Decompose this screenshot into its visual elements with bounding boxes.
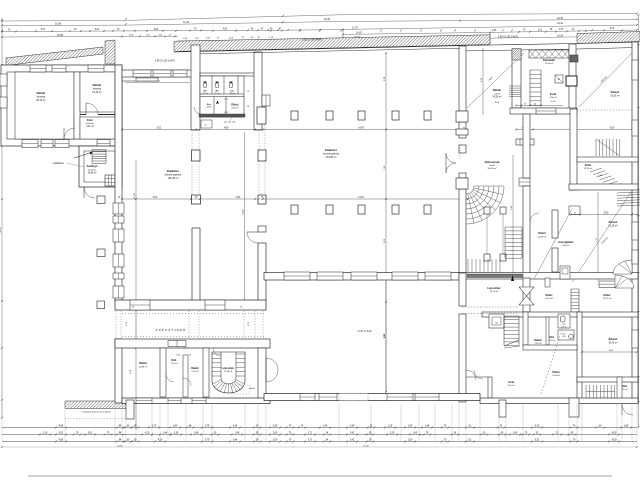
svg-text:4,20: 4,20: [145, 433, 150, 435]
svg-text:14,87: 14,87: [358, 197, 364, 199]
wall y377 bottom wing: [577, 377, 638, 382]
svg-text:34,32: 34,32: [324, 18, 331, 21]
svg-text:szódó: szódó: [489, 165, 495, 167]
svg-text:4,66: 4,66: [492, 30, 497, 32]
connector wall top: [122, 74, 160, 76]
label eladoter 334: [323, 148, 340, 159]
right wing west wall: [459, 46, 466, 273]
svg-text:14,87: 14,87: [356, 31, 363, 34]
svg-text:Közl.: Közl.: [171, 359, 177, 362]
svg-text:Raktár: Raktár: [37, 91, 47, 95]
svg-text:11,62: 11,62: [0, 227, 2, 233]
hatch band top right: [565, 32, 640, 44]
svg-text:1,46: 1,46: [235, 433, 240, 435]
dim vline x513: [511, 155, 513, 278]
bowtie door symbol: [519, 287, 534, 296]
windows wing west wall: [0, 74, 7, 108]
toilet block east wall: [254, 52, 262, 130]
label raktar 9,50: [191, 367, 199, 373]
label raktar szarito: [492, 88, 501, 104]
wall kotart west: [570, 109, 577, 190]
svg-text:17,07: 17,07: [352, 26, 359, 29]
label kiszolgaloter: [558, 241, 573, 247]
dim line 6,00 y214: [570, 213, 638, 216]
eloteto dashed: [232, 385, 250, 394]
wall y345 lower mid: [523, 345, 577, 350]
passage dotted horizontals: [122, 313, 264, 315]
windows courtyard bottom wall: [300, 394, 439, 401]
hatch band top middle legudvar: [157, 35, 503, 52]
dimension line top 4 right detailed: [342, 28, 638, 39]
svg-text:3,46: 3,46: [233, 426, 238, 428]
svg-text:6,89 m²: 6,89 m²: [562, 244, 569, 247]
window on connector: [136, 75, 158, 81]
protrusion 1: [499, 400, 506, 417]
wall y312 right block: [482, 312, 638, 317]
small room gk: [201, 120, 212, 128]
svg-text:2,09: 2,09: [273, 433, 278, 435]
svg-text:28,74 m²: 28,74 m²: [36, 99, 46, 102]
svg-text:2,09: 2,09: [273, 440, 278, 442]
wing bottom wall: [122, 398, 270, 404]
svg-text:5,01: 5,01: [41, 29, 46, 31]
extension tick x490 top: [489, 32, 491, 44]
label kotar: [584, 164, 603, 177]
protrusion 2: [569, 398, 579, 417]
door arc bottom right: [622, 404, 633, 415]
main top wall inner band: [200, 48, 460, 54]
crossbrace beam strip: [529, 50, 569, 58]
grid shaft in szelfogo: [105, 175, 115, 186]
door arc courtyard east: [466, 370, 476, 380]
svg-text:1,44: 1,44: [163, 433, 168, 435]
svg-text:Öltöző: Öltöző: [538, 232, 546, 235]
svg-text:3,01: 3,01: [88, 433, 93, 435]
svg-text:előtető: előtető: [249, 387, 255, 390]
svg-text:6,80 m²: 6,80 m²: [231, 106, 238, 109]
wall between raktar rooms: [74, 72, 80, 139]
dimension line left vertical: [0, 19, 3, 420]
window eloter north wall: [599, 281, 625, 288]
svg-text:3,79: 3,79: [205, 440, 210, 442]
door arcs to courtyard: [266, 358, 278, 370]
svg-text:52,03 m²: 52,03 m²: [610, 94, 619, 97]
stairs kotar diagonal: [590, 168, 621, 188]
room raktar szarito diagonal: [467, 53, 524, 108]
svg-text:9,50 m²: 9,50 m²: [191, 370, 198, 373]
svg-text:10,56: 10,56: [57, 34, 64, 37]
svg-text:Eladótér: Eladótér: [325, 148, 338, 152]
bottom flight treads: [468, 259, 500, 274]
fan symbol 2: [615, 275, 634, 288]
room Raktar 28,74 outline: [15, 72, 74, 139]
svg-text:10,70 m²: 10,70 m²: [490, 290, 499, 293]
svg-text:Raktár: Raktár: [93, 83, 103, 87]
room Raktar 10,42 outline: [80, 72, 115, 112]
label etkezo 52: [610, 89, 619, 97]
colonnade west pillar upper: [192, 150, 201, 161]
window court: [520, 139, 529, 145]
stairs treads top right corner: [617, 192, 640, 193]
svg-text:Raktár: Raktár: [534, 339, 542, 342]
svg-text:5,03: 5,03: [154, 29, 159, 31]
svg-text:9,42 m²: 9,42 m²: [545, 297, 553, 300]
dotted line etkezo52 bottom: [577, 109, 637, 111]
main top wall line: [174, 45, 490, 52]
svg-text:1,50: 1,50: [408, 440, 413, 442]
svg-text:16,34: 16,34: [557, 17, 564, 20]
door arc raktar2874: [64, 128, 75, 139]
hall bottom wall: [264, 273, 460, 281]
stairs lower lepcso: [504, 316, 519, 346]
wall x617 bottom wing: [617, 377, 622, 402]
left wing inner wall line: [7, 72, 115, 139]
svg-text:6,00: 6,00: [604, 213, 609, 215]
windows on west wall: [113, 203, 124, 298]
svg-text:5,32: 5,32: [535, 426, 540, 428]
dimension line top 4 left: [1, 34, 178, 38]
window stairhall east: [519, 178, 530, 186]
partition kozl-raktar: [183, 355, 188, 397]
wall raktar-kozl lower right: [546, 317, 549, 345]
dimension line bottom y427.5: [2, 426, 637, 429]
bottom wall right block: [480, 398, 638, 404]
label raktar 15,89: [139, 362, 148, 368]
svg-text:2,09: 2,09: [273, 426, 278, 428]
windows passage top wall: [130, 300, 225, 310]
svg-text:16,36: 16,36: [134, 192, 136, 198]
wall stairhall east: [523, 114, 530, 178]
door arc hall181 east: [247, 232, 258, 243]
wc fixtures: [203, 81, 233, 87]
niche west wall etkezo61: [569, 206, 580, 215]
svg-text:7,56 m²: 7,56 m²: [549, 96, 557, 99]
label eloter 9,42: [545, 294, 553, 300]
pillars row 1: [291, 111, 431, 120]
right wing bottom wall y273: [459, 273, 638, 280]
main west wall upper: [115, 65, 122, 302]
straight flight east: [505, 227, 522, 258]
sz box szellozo: [560, 266, 570, 279]
pillars row 2: [291, 205, 431, 214]
svg-text:1,25: 1,25: [390, 433, 395, 435]
dim line inside y129: [121, 128, 461, 131]
svg-text:4,80: 4,80: [236, 197, 241, 199]
svg-text:1,40: 1,40: [413, 433, 418, 435]
wall kiszolgalo west: [552, 210, 558, 238]
dark wall segment lepcsohaz top: [467, 274, 523, 278]
hatch band top-left wing: [0, 47, 121, 66]
dark kamra box: [566, 76, 577, 86]
dim vline x483: [482, 48, 484, 115]
svg-text:24,26 m²: 24,26 m²: [492, 96, 501, 99]
label kozl 7,54: [170, 359, 177, 365]
svg-text:Raktár: Raktár: [139, 362, 147, 365]
svg-text:12,20 m²: 12,20 m²: [584, 167, 593, 170]
svg-text:10,80 m²: 10,80 m²: [87, 172, 96, 175]
toilet block partitions: [199, 76, 245, 117]
wall y184 right: [569, 184, 638, 190]
svg-text:1,17 m²: 1,17 m²: [214, 92, 221, 95]
dim vline x386: [384, 52, 387, 393]
svg-text:1,37: 1,37: [559, 29, 564, 31]
svg-text:70: 70: [132, 307, 134, 309]
svg-text:6,00: 6,00: [610, 128, 615, 130]
dim vline x242: [242, 132, 244, 300]
diagonal wall lower: [504, 340, 519, 346]
pilaster bumps west wall: [456, 111, 468, 189]
wc small lower: [558, 314, 570, 328]
dim line inside right y129: [515, 128, 638, 131]
label szelfogo: [87, 164, 98, 175]
dotted by door: [459, 145, 461, 160]
windows left wing bottom wall: [22, 140, 110, 148]
label iroda 7,56: [549, 92, 557, 103]
svg-text:Lépcsőház: Lépcsőház: [222, 368, 235, 370]
svg-text:Eladótér: Eladótér: [167, 169, 180, 173]
windows hall bottom wall: [284, 272, 451, 280]
label raktar 7,67: [534, 339, 542, 345]
label etkezo 30,41: [608, 336, 617, 344]
svg-text:61,16 m²: 61,16 m²: [608, 224, 617, 227]
svg-text:15,89 m²: 15,89 m²: [139, 365, 148, 368]
svg-text:16,34: 16,34: [557, 35, 563, 37]
svg-text:1,49 m²: 1,49 m²: [229, 92, 236, 95]
dashed diagonal lower: [541, 330, 562, 394]
svg-text:zsidókútra: zsidókútra: [53, 162, 65, 165]
stairs bottom wing: [586, 385, 615, 398]
svg-text:Hűtöszemek: Hűtöszemek: [485, 161, 500, 164]
dim vline x598: [597, 192, 599, 281]
svg-text:1,08 m²: 1,08 m²: [206, 106, 213, 109]
label oltozo 11,87: [538, 232, 547, 238]
label lepcsohaz 15,09: [222, 368, 235, 373]
shops top wall: [122, 70, 199, 77]
passage bottom wall: [115, 339, 270, 348]
partition raktar-lepcso: [203, 348, 209, 397]
toilet block top wall: [200, 73, 255, 76]
svg-text:2,73: 2,73: [152, 426, 157, 428]
svg-text:LÉGUDVAR: LÉGUDVAR: [302, 37, 323, 42]
door arcs hall east double: [446, 153, 456, 163]
stair hall pillars: [484, 207, 506, 261]
svg-text:1,46: 1,46: [194, 433, 199, 435]
small stairs raktar: [509, 86, 521, 97]
svg-text:70: 70: [247, 106, 249, 108]
label iroda 5,16: [507, 381, 514, 387]
svg-text:Kiszolgálótér: Kiszolgálótér: [558, 241, 573, 244]
street posts left: [97, 196, 105, 309]
svg-text:Előtér: Előtér: [603, 294, 610, 297]
dimension line bottom overall: [1, 445, 638, 448]
bottom border line: [28, 475, 612, 477]
svg-text:KAPUÁTJÁRÓ: KAPUÁTJÁRÓ: [156, 327, 187, 332]
extension lines bottom: [2, 404, 637, 442]
winder stair fan: [466, 186, 504, 224]
svg-text:4,81: 4,81: [223, 29, 228, 31]
svg-text:5,32: 5,32: [535, 440, 540, 442]
dim line inside y199: [118, 197, 469, 200]
hatch strip bottom left kossuth: [58, 401, 133, 409]
szelfogo outer walls: [79, 146, 122, 187]
wing top wall windows: [30, 65, 46, 72]
svg-text:5,16 m²: 5,16 m²: [507, 384, 514, 387]
svg-text:70: 70: [240, 307, 242, 309]
right outer wall: [632, 42, 638, 402]
svg-text:5,03: 5,03: [153, 197, 158, 199]
svg-text:94,05 m²: 94,05 m²: [488, 167, 497, 170]
dimension line right vertical: [638, 14, 640, 428]
svg-text:1,80: 1,80: [173, 426, 178, 428]
door in passage bottom wall: [168, 341, 186, 347]
east colonnade big pillar: [257, 107, 266, 124]
label etkezo 61: [608, 219, 617, 227]
svg-text:Közl.: Közl.: [549, 337, 555, 339]
wall bottom top-right rooms: [510, 108, 577, 114]
svg-text:Raktár: Raktár: [191, 367, 199, 370]
windows wall y108 right: [536, 108, 556, 114]
wall x523 lower: [523, 312, 528, 345]
stairs top right strip: [530, 70, 541, 106]
wall protrusion left bottom: [126, 400, 134, 419]
door arc oltozo1187: [530, 213, 539, 222]
svg-text:15,09 m²: 15,09 m²: [224, 370, 232, 373]
dimension line top 3 right: [342, 23, 638, 42]
sz box lower: [489, 314, 504, 328]
windows shops top wall: [133, 70, 187, 77]
svg-text:16,02: 16,02: [363, 445, 369, 447]
wall iroda: [488, 377, 492, 398]
partition raktar-kozl: [160, 348, 166, 397]
svg-text:Öltöző: Öltöző: [231, 104, 239, 107]
svg-text:LÉGUDVAR: LÉGUDVAR: [155, 58, 176, 63]
label oltozo 4,54: [552, 371, 560, 377]
door arc szelfogo exit: [84, 187, 95, 198]
dim vline x136: [134, 160, 137, 430]
svg-text:5,92 m²: 5,92 m²: [549, 339, 556, 342]
passage top wall: [115, 300, 266, 310]
wall iroda etkezo: [569, 44, 576, 114]
main top wall inner line: [459, 49, 577, 51]
svg-text:1,48: 1,48: [425, 426, 430, 428]
svg-text:Raktár: Raktár: [493, 88, 501, 92]
stair hall rail lines: [486, 214, 488, 254]
svg-text:2,10: 2,10: [224, 98, 228, 100]
chimney dark block: [570, 55, 578, 62]
svg-text:1,10: 1,10: [43, 433, 48, 435]
svg-text:1,71: 1,71: [308, 433, 313, 435]
dimension line top 1 overall: [1, 13, 638, 23]
dashed passage udvar: [462, 306, 519, 308]
u-stair lepcsohaz: [212, 352, 245, 393]
svg-text:2,06: 2,06: [562, 336, 565, 338]
colonnade east dotted: [258, 130, 260, 195]
svg-text:1,88: 1,88: [624, 426, 629, 428]
door arc toilet corridor: [194, 107, 201, 114]
svg-text:Közl.: Közl.: [87, 118, 93, 122]
hatch block small top: [501, 49, 532, 61]
label keziraktar 11,05: [543, 59, 555, 65]
sz box iroda: [555, 75, 563, 83]
svg-text:5,01: 5,01: [157, 128, 162, 130]
svg-text:16,34: 16,34: [557, 23, 563, 25]
svg-text:10,42 m²: 10,42 m²: [92, 91, 102, 94]
label eloter 6,52: [620, 385, 627, 391]
svg-text:Előtér: Előtér: [545, 294, 552, 297]
dimension line bottom y441.5: [2, 440, 637, 443]
dimension line bottom y434.5: [2, 433, 637, 436]
room etkezo61 diagonal: [572, 192, 631, 282]
label eloter 13,27: [603, 294, 612, 300]
dimension line top 3 left detailed: [1, 28, 344, 32]
svg-text:LÉGUDVAR: LÉGUDVAR: [498, 34, 519, 39]
door arc iroda: [474, 370, 483, 379]
label raktar 10,42: [92, 83, 102, 94]
svg-text:14,62: 14,62: [117, 445, 123, 447]
svg-text:2,42: 2,42: [350, 433, 355, 435]
kez room lower: [558, 330, 574, 340]
svg-text:70: 70: [247, 91, 249, 93]
dim vline udvar: [384, 281, 386, 392]
main west wall lower: [115, 339, 122, 403]
passage dotted verticals: [115, 311, 117, 339]
svg-text:6,00: 6,00: [612, 433, 617, 435]
svg-text:1,40: 1,40: [513, 433, 518, 435]
svg-text:14,87: 14,87: [358, 128, 364, 130]
door arc stair room: [213, 348, 221, 356]
label lepcsohaz 10,70: [488, 287, 502, 293]
svg-text:3,79: 3,79: [205, 426, 210, 428]
svg-text:3,46: 3,46: [233, 440, 238, 442]
stairs szelfogo with arrow: [74, 150, 106, 164]
windows right outer wall: [632, 60, 638, 348]
wall under raktar 10,42 with door opening: [80, 114, 86, 116]
svg-text:1,48: 1,48: [323, 426, 328, 428]
svg-text:11,05 m²: 11,05 m²: [545, 62, 554, 65]
east wall of hall181 upper: [258, 226, 266, 232]
svg-text:14,95: 14,95: [242, 208, 244, 214]
label kozl 5,92: [549, 337, 556, 342]
svg-text:2,40: 2,40: [350, 426, 355, 428]
dim line y105 top right: [515, 104, 563, 107]
svg-text:3,01: 3,01: [95, 29, 100, 31]
toilet block west wall: [191, 45, 200, 130]
dotted under hatch: [65, 418, 126, 420]
svg-text:1,25: 1,25: [388, 426, 393, 428]
svg-text:Szélfogó: Szélfogó: [87, 164, 98, 168]
east wall of hall181 lower: [258, 243, 266, 302]
svg-text:0,94 m²: 0,94 m²: [561, 325, 567, 328]
wall kotar north: [577, 157, 638, 162]
svg-text:1,50: 1,50: [408, 426, 413, 428]
svg-text:Öltöző: Öltöző: [552, 371, 560, 374]
door arc kozl: [166, 374, 174, 382]
svg-text:UDVAR: UDVAR: [357, 329, 372, 333]
stairs mid right: [596, 139, 620, 156]
colonnade west pillar: [192, 195, 201, 204]
svg-text:Kéziraktár: Kéziraktár: [543, 59, 555, 62]
wall x577 lower: [577, 312, 582, 402]
label raktar 28,74: [36, 91, 46, 102]
svg-text:13,27 m²: 13,27 m²: [603, 297, 612, 300]
lepcsohaz east wall lower: [523, 278, 530, 312]
left wing outer wall: [1, 65, 122, 146]
dimension line mid small: [178, 37, 283, 41]
svg-text:Iroda: Iroda: [550, 92, 557, 96]
svg-text:30,41 m²: 30,41 m²: [608, 341, 617, 344]
dashed shaft lines: [570, 114, 572, 130]
courtyard bottom wall: [264, 394, 480, 401]
